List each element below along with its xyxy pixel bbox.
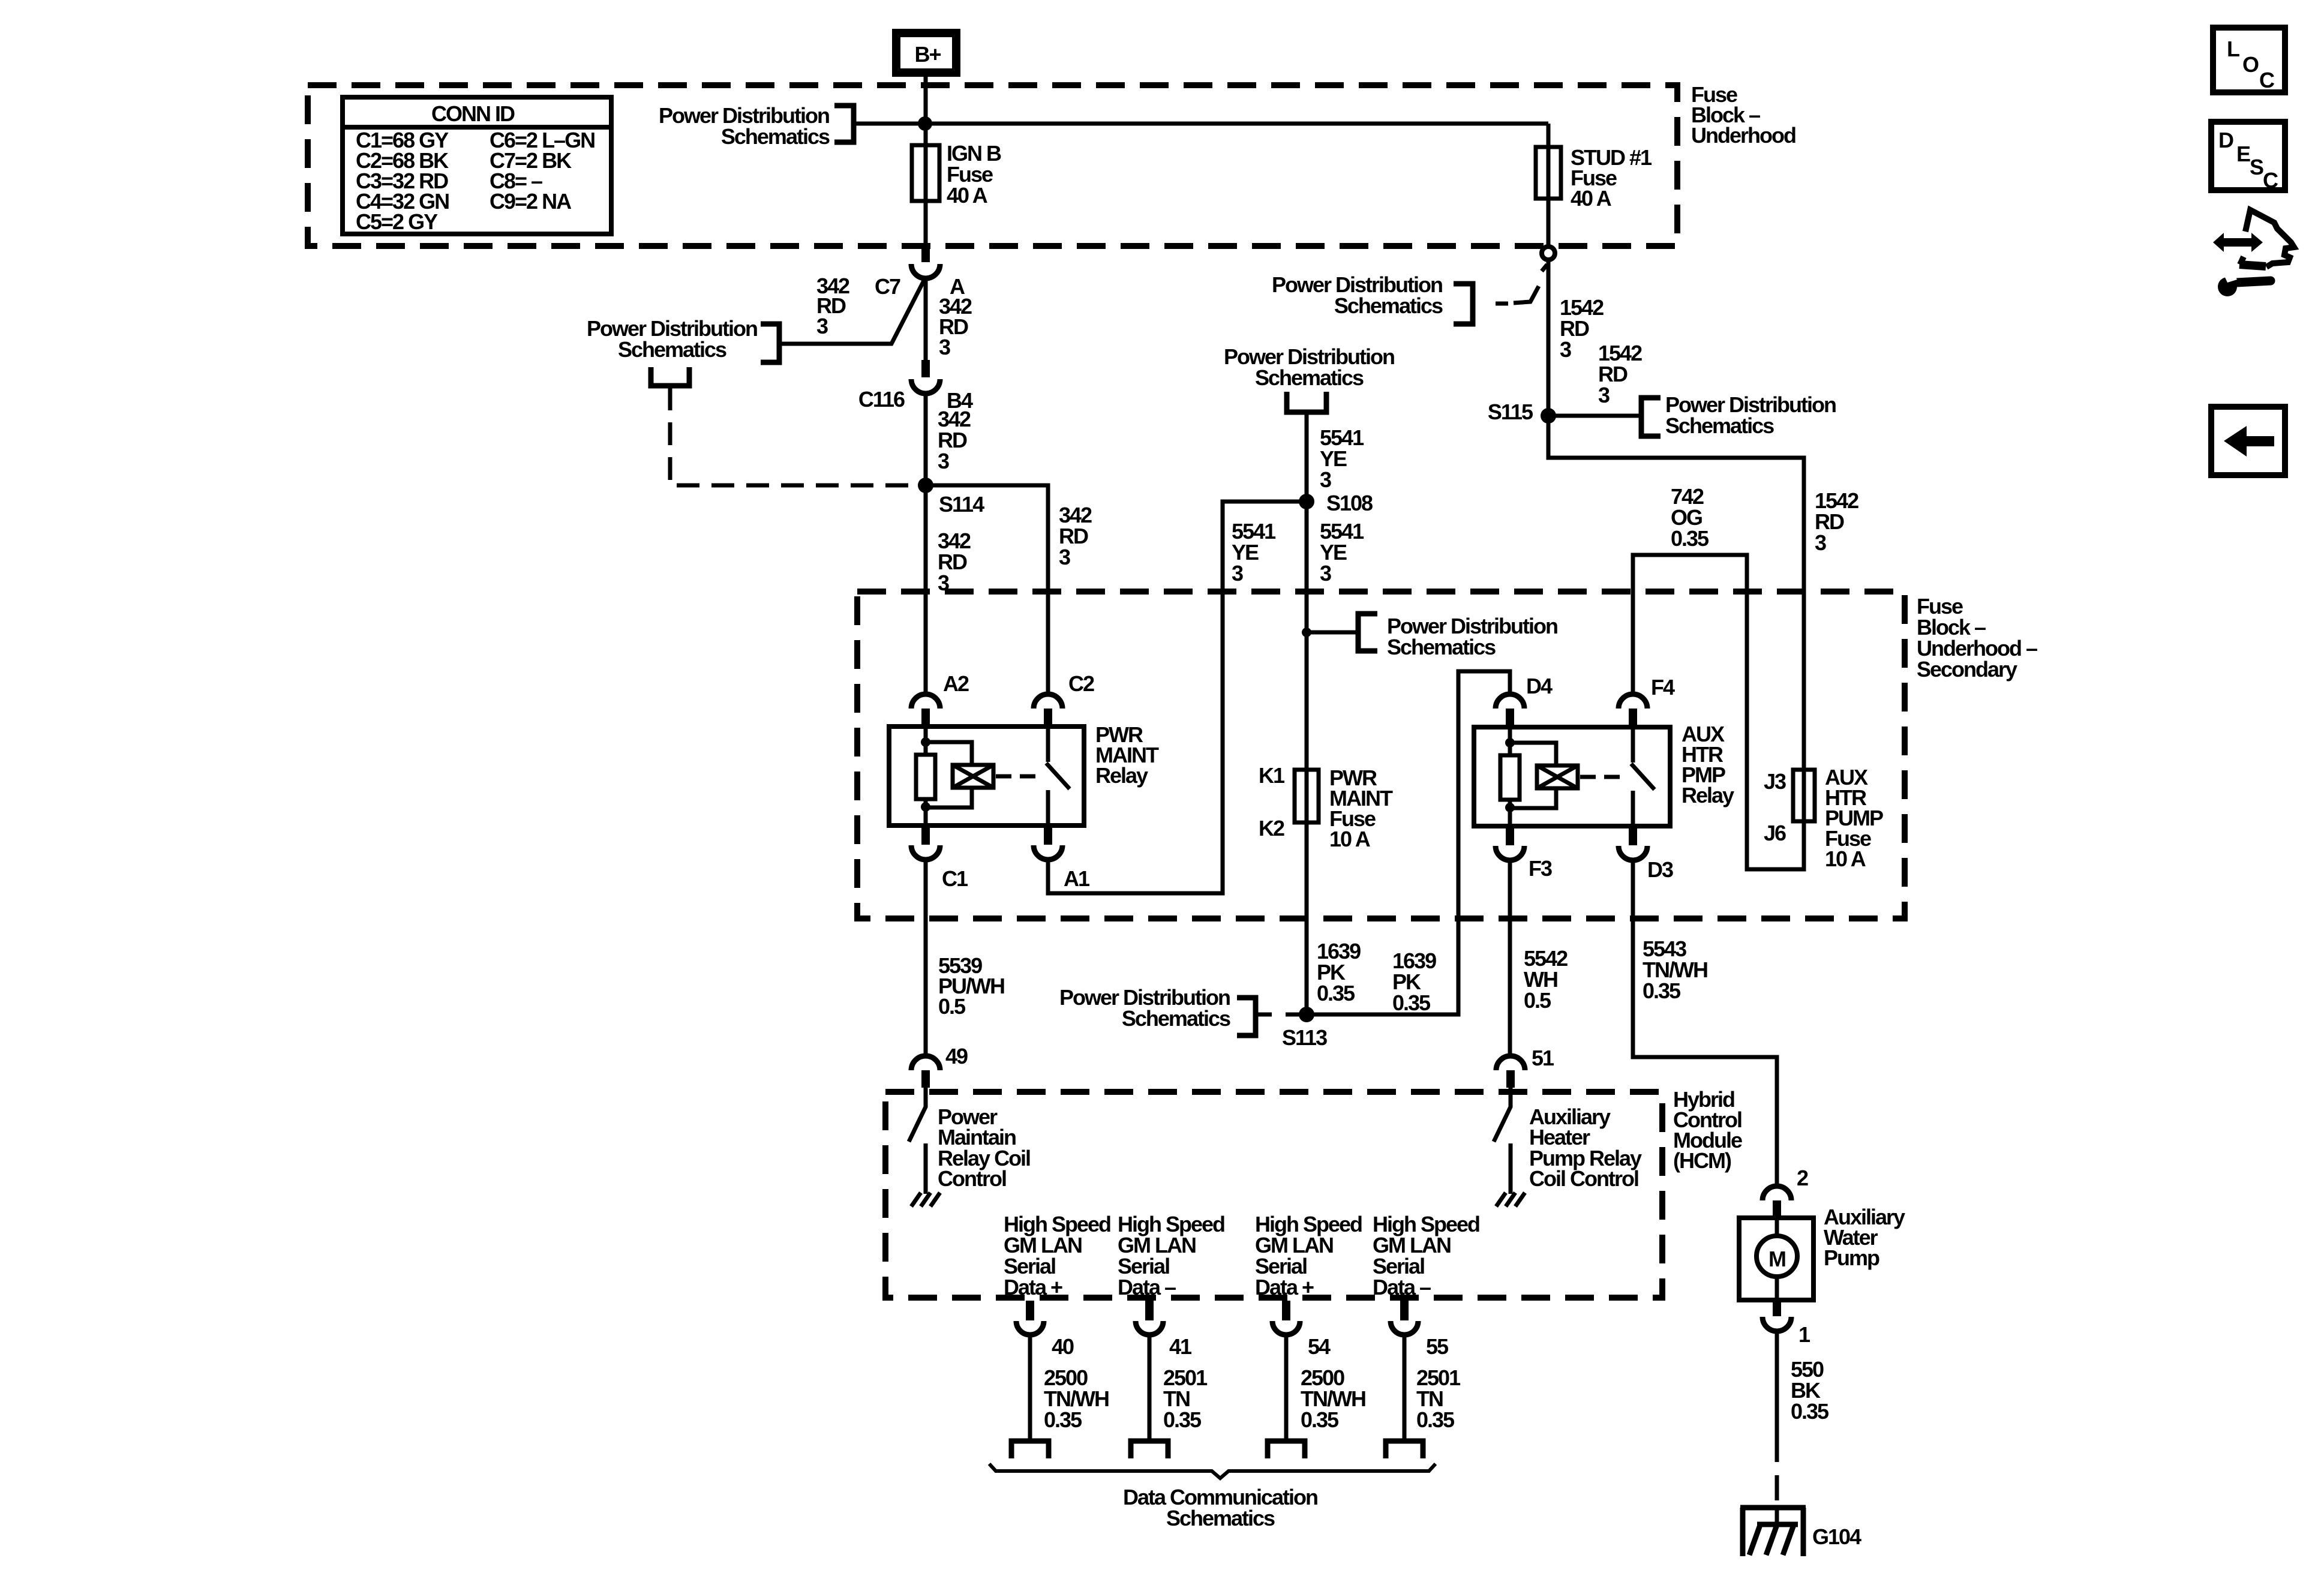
connector terminal D4 (cup + pin) — [1496, 694, 1524, 709]
connector terminal 40 (pin + cup) — [1026, 1301, 1034, 1320]
svg-text:(HCM): (HCM) — [1673, 1148, 1731, 1173]
svg-text:Schematics: Schematics — [1122, 1006, 1230, 1031]
svg-text:Secondary: Secondary — [1917, 657, 2017, 682]
svg-text:S113: S113 — [1282, 1025, 1327, 1050]
bracket (open-top) above S108 — [1287, 392, 1326, 412]
Auxiliary Heater Pump Relay Coil Control label — [1529, 1104, 1642, 1191]
svg-text:S114: S114 — [939, 492, 984, 517]
svg-text:C116: C116 — [858, 387, 905, 412]
svg-text:Coil Control: Coil Control — [1529, 1166, 1638, 1191]
connector terminal 54 (pin + cup) — [1282, 1301, 1290, 1320]
switch Power Maintain Relay Coil Control — [909, 1088, 926, 1194]
resistor of PWR MAINT relay — [916, 755, 935, 799]
svg-text:E: E — [2236, 142, 2250, 166]
svg-text:K2: K2 — [1259, 816, 1284, 840]
label 1639 PK 0.35 (right) — [1392, 948, 1436, 1015]
icon DESC box — [2211, 122, 2285, 193]
svg-text:0.5: 0.5 — [1524, 988, 1551, 1013]
wire 1542 RD from S115 down to AUX HTR PUMP fuse loop — [1548, 416, 1804, 869]
connector C116 pin B4 (female cup) — [911, 379, 940, 394]
bracket for top-left reference — [834, 106, 854, 142]
connector C116 pin B4 (male pin) — [921, 360, 930, 377]
svg-text:F4: F4 — [1651, 675, 1675, 700]
resistor of AUX HTR PMP relay — [1500, 755, 1520, 800]
wire 1542 RD from circle to S115 — [1547, 262, 1551, 416]
connector terminal C2 (cup + pin) — [1034, 694, 1062, 709]
Power Maintain Relay Coil Control label — [938, 1104, 1030, 1191]
svg-text:40: 40 — [1052, 1334, 1074, 1359]
svg-text:0.35: 0.35 — [1317, 981, 1355, 1005]
svg-text:F3: F3 — [1529, 856, 1552, 881]
connector C7 pin A (male pin) — [921, 244, 930, 262]
wire 2500 TN/WH to terminator — [1028, 1335, 1032, 1441]
label 5542 WH 0.5 — [1524, 946, 1568, 1013]
svg-text:C: C — [2259, 68, 2275, 92]
relay PWR MAINT box — [889, 727, 1084, 825]
wire 5541 YE main from bracket through S108 to S113 — [1305, 412, 1309, 1014]
svg-text:Schematics: Schematics — [1334, 293, 1443, 318]
svg-text:3: 3 — [1815, 530, 1826, 555]
label 2500 TN/WH 0.35 — [1301, 1365, 1365, 1432]
switch contact of PWR MAINT relay — [1046, 727, 1070, 825]
svg-text:1: 1 — [1798, 1322, 1810, 1347]
svg-text:3: 3 — [1598, 383, 1610, 407]
label 742 OG 0.35 — [1671, 484, 1709, 551]
wire 342 RD from C7 to C116 — [924, 277, 928, 360]
svg-text:3: 3 — [1560, 337, 1571, 362]
svg-text:Underhood: Underhood — [1691, 123, 1795, 148]
Fuse Block - Underhood - Secondary dashed box — [857, 592, 1905, 918]
fuse AUX HTR PUMP 10A — [1764, 765, 1883, 871]
svg-text:3: 3 — [938, 449, 949, 473]
svg-text:Schematics: Schematics — [1255, 365, 1364, 390]
svg-text:C2: C2 — [1068, 671, 1094, 696]
svg-text:49: 49 — [945, 1044, 968, 1068]
wire 5539 PU/WH from C1 down to HCM 49 — [924, 859, 928, 1056]
svg-text:0.35: 0.35 — [1163, 1407, 1202, 1432]
wire 2501 TN to terminator — [1403, 1335, 1407, 1441]
node B+ battery feed box — [896, 33, 956, 73]
label 342 RD 3 (left of diagonal) — [816, 274, 849, 338]
open terminal circle below STUD fuse — [1542, 247, 1555, 260]
wire 5543 TN/WH from D3 to pump connector 2 — [1633, 860, 1777, 1186]
svg-text:0.35: 0.35 — [1671, 526, 1709, 551]
CONN ID table — [343, 97, 611, 234]
connector terminal 55 (pin + cup) — [1400, 1301, 1409, 1320]
svg-text:Control: Control — [938, 1166, 1006, 1191]
connector terminal C1 (pin + cup) — [921, 827, 930, 845]
terminator pin 54 — [1268, 1441, 1305, 1458]
connector terminal F4 (cup + pin) — [1619, 694, 1647, 709]
svg-text:Schematics: Schematics — [1665, 413, 1774, 438]
svg-text:0.35: 0.35 — [1416, 1407, 1455, 1432]
svg-text:51: 51 — [1532, 1046, 1554, 1070]
svg-text:40 A: 40 A — [1571, 186, 1612, 211]
connector terminal A1 (pin + cup) — [1044, 827, 1052, 845]
wire 2501 TN to terminator — [1148, 1335, 1152, 1441]
svg-text:Schematics: Schematics — [618, 337, 726, 362]
label 2501 TN 0.35 — [1416, 1365, 1461, 1432]
High Speed GM LAN Serial Data - label (pin 41) — [1118, 1212, 1224, 1299]
wire down to STUD #1 fuse — [1547, 124, 1551, 245]
connector terminal 1 of pump (pin + cup) — [1773, 1300, 1781, 1316]
label 550 BK 0.35 — [1791, 1357, 1829, 1424]
label 342 RD 3 (at C7 pin A) — [939, 294, 972, 359]
svg-text:2: 2 — [1797, 1166, 1808, 1190]
svg-text:Schematics: Schematics — [1166, 1506, 1275, 1530]
wire stub from S113 to reference bracket — [1257, 1013, 1307, 1017]
relay AUX HTR PMP box — [1474, 727, 1670, 826]
wire A1 loop to S108 — [1048, 502, 1300, 893]
ground (chassis) inside HCM right — [1496, 1193, 1525, 1206]
Fuse Block - Underhood label — [1691, 82, 1795, 148]
wire S114 branch to relay C2 — [926, 485, 1048, 694]
svg-text:0.35: 0.35 — [1791, 1399, 1829, 1424]
svg-text:A2: A2 — [943, 671, 969, 696]
High Speed GM LAN Serial Data - label (pin 55) — [1373, 1212, 1479, 1299]
svg-text:54: 54 — [1308, 1334, 1331, 1359]
wire inside relay from D4 — [1508, 727, 1512, 755]
svg-text:0.35: 0.35 — [1301, 1407, 1339, 1432]
svg-text:S115: S115 — [1488, 400, 1533, 424]
svg-text:C9=2 NA: C9=2 NA — [490, 189, 572, 214]
Hybrid Control Module dashed box — [885, 1092, 1662, 1298]
svg-text:J6: J6 — [1764, 821, 1786, 845]
junction dot to mid reference — [1302, 628, 1311, 637]
svg-text:Data –: Data – — [1373, 1275, 1431, 1299]
label 5539 PU/WH 0.5 — [938, 953, 1004, 1019]
connector terminal A2 (cup + pin) — [911, 694, 940, 709]
svg-text:Data –: Data – — [1118, 1275, 1176, 1299]
wire 2500 TN/WH to terminator — [1284, 1335, 1289, 1441]
svg-text:10 A: 10 A — [1825, 846, 1866, 871]
wire S115 branch to reference bracket — [1548, 414, 1641, 418]
connector terminal 49 (cup + pin) — [911, 1056, 940, 1070]
label 1542 RD 3 (third) — [1815, 488, 1858, 555]
switch contact of AUX HTR PMP relay — [1631, 727, 1655, 826]
wire 1639 PK from S113 up to relay D4 — [1307, 671, 1510, 1014]
wire 342 RD from C116 through S114 to relay A2 — [924, 392, 928, 694]
svg-text:3: 3 — [1320, 561, 1331, 586]
svg-text:3: 3 — [816, 314, 828, 338]
motor Auxiliary Water Pump — [1739, 1218, 1813, 1300]
icon back arrow box — [2211, 407, 2285, 475]
svg-text:B+: B+ — [914, 42, 941, 67]
dashed switch reference to other schematic — [1496, 265, 1547, 304]
label 2500 TN/WH 0.35 — [1044, 1365, 1109, 1432]
label 1542 RD 3 — [1560, 295, 1604, 362]
svg-text:A1: A1 — [1064, 866, 1090, 891]
coil branch wire — [1510, 743, 1556, 808]
Fuse Block - Underhood dashed box — [308, 85, 1677, 246]
dashed actuator link — [996, 775, 1041, 779]
ground G104 — [1740, 1508, 1861, 1556]
relay PWR MAINT label — [1095, 722, 1159, 788]
svg-text:C1: C1 — [942, 866, 968, 891]
svg-text:L: L — [2227, 37, 2239, 61]
dashed actuator link — [1580, 775, 1626, 779]
brace Data Communication Schematics — [989, 1464, 1436, 1478]
Fuse Block - Underhood - Secondary label — [1917, 594, 2037, 682]
dashed reference wire to S114 — [670, 388, 917, 485]
terminator pin 41 — [1131, 1441, 1168, 1458]
coil branch wire — [926, 742, 972, 807]
label 5541 YE 3 (above S108) — [1320, 425, 1364, 492]
svg-text:Relay: Relay — [1682, 783, 1734, 807]
label 5541 YE 3 (below S108) — [1320, 519, 1364, 586]
svg-text:0.35: 0.35 — [1392, 990, 1431, 1015]
coil of AUX HTR PMP relay — [1537, 766, 1578, 788]
wire B+ down to IGN B fuse — [924, 77, 928, 247]
connector terminal 51 (cup + pin) — [1496, 1056, 1525, 1070]
connector terminal D3 (pin + cup) — [1629, 827, 1637, 845]
ground (chassis) inside HCM left — [911, 1193, 940, 1206]
bracket for switch reference — [1454, 284, 1473, 324]
label 5543 TN/WH 0.35 — [1643, 936, 1707, 1003]
svg-text:41: 41 — [1169, 1334, 1192, 1359]
svg-text:0.35: 0.35 — [1044, 1407, 1082, 1432]
svg-text:S: S — [2250, 155, 2263, 179]
switch Auxiliary Heater Pump Relay Coil Control — [1494, 1088, 1511, 1194]
Auxiliary Water Pump label — [1824, 1205, 1905, 1270]
fuse PWR MAINT 10A — [1259, 763, 1393, 851]
svg-text:C7: C7 — [875, 274, 900, 299]
label 5541 YE 3 (A1 branch) — [1232, 519, 1276, 586]
label 2501 TN 0.35 — [1163, 1365, 1208, 1432]
bracket (open-top) for dashed reference — [651, 367, 689, 386]
Hybrid Control Module label — [1673, 1087, 1742, 1173]
svg-text:3: 3 — [1232, 561, 1243, 586]
svg-text:Data +: Data + — [1004, 1275, 1062, 1299]
terminator pin 55 — [1386, 1441, 1423, 1458]
bracket mid reference — [1358, 614, 1377, 651]
svg-text:40 A: 40 A — [947, 183, 988, 208]
svg-text:G104: G104 — [1812, 1524, 1861, 1549]
junction dot at B+ wire — [918, 116, 932, 131]
splice S115 — [1541, 408, 1556, 424]
svg-text:Pump: Pump — [1824, 1245, 1879, 1270]
relay AUX HTR PMP label — [1682, 722, 1734, 807]
icon vehicle panel with double arrow and wrench — [2213, 210, 2294, 296]
svg-text:Schematics: Schematics — [721, 124, 830, 149]
label 1639 PK 0.35 (left) — [1317, 939, 1361, 1005]
svg-text:Schematics: Schematics — [1387, 635, 1496, 659]
coil of PWR MAINT relay — [953, 765, 993, 788]
svg-text:0.5: 0.5 — [938, 994, 966, 1019]
svg-text:K1: K1 — [1259, 763, 1285, 788]
wire to mid reference bracket — [1307, 631, 1358, 635]
splice S114 — [918, 478, 933, 493]
svg-text:Data +: Data + — [1255, 1275, 1314, 1299]
bracket S113 reference — [1237, 998, 1256, 1035]
label 342 RD 3 (below S114) — [938, 529, 971, 595]
wire diagonal branch to Power Distribution reference — [779, 277, 926, 344]
label 342 RD 3 (branch to C2) — [1059, 503, 1092, 569]
connector terminal 41 (pin + cup) — [1145, 1301, 1154, 1320]
wire 550 BK from pump to G104 — [1775, 1331, 1779, 1437]
svg-text:CONN ID: CONN ID — [431, 101, 515, 126]
svg-text:0.35: 0.35 — [1643, 978, 1681, 1003]
connector terminal 2 of pump (cup + pin) — [1762, 1186, 1791, 1200]
wire inside relay from A2 — [924, 727, 928, 755]
wire 5542 WH from F3 down to HCM 51 — [1508, 860, 1512, 1056]
svg-text:D: D — [2218, 128, 2233, 152]
wire B+ feed horizontal to STUD #1 fuse — [854, 122, 1548, 126]
High Speed GM LAN Serial Data + label (pin 54) — [1255, 1212, 1362, 1299]
svg-text:D3: D3 — [1647, 857, 1673, 882]
svg-text:D4: D4 — [1526, 674, 1553, 698]
bracket S115 reference — [1641, 398, 1661, 436]
label 342 RD 3 (below C116) — [938, 407, 971, 473]
svg-text:C5=2 GY: C5=2 GY — [356, 209, 438, 234]
connector terminal F3 (pin + cup) — [1506, 827, 1514, 845]
icon LOC box — [2213, 28, 2285, 92]
svg-text:3: 3 — [1320, 467, 1331, 492]
splice S113 — [1299, 1007, 1314, 1022]
High Speed GM LAN Serial Data + label (pin 40) — [1004, 1212, 1110, 1299]
svg-text:J3: J3 — [1764, 769, 1786, 794]
svg-text:M: M — [1768, 1247, 1785, 1271]
connector C7 pin A (female cup) — [911, 264, 940, 278]
svg-text:3: 3 — [939, 335, 950, 359]
svg-text:O: O — [2242, 52, 2259, 77]
terminator pin 40 — [1011, 1441, 1049, 1458]
svg-text:55: 55 — [1426, 1334, 1449, 1359]
splice S108 — [1299, 494, 1314, 509]
bracket for C7 reference — [761, 324, 779, 362]
svg-text:Relay: Relay — [1095, 763, 1148, 788]
svg-text:S108: S108 — [1326, 491, 1373, 515]
svg-text:C: C — [2263, 168, 2278, 193]
fuse IGN B 40A — [912, 141, 1001, 208]
fuse STUD #1 40A — [1536, 145, 1652, 211]
label 1542 RD 3 (second) — [1598, 341, 1642, 407]
svg-text:10 A: 10 A — [1329, 827, 1371, 851]
svg-text:3: 3 — [1059, 545, 1070, 569]
